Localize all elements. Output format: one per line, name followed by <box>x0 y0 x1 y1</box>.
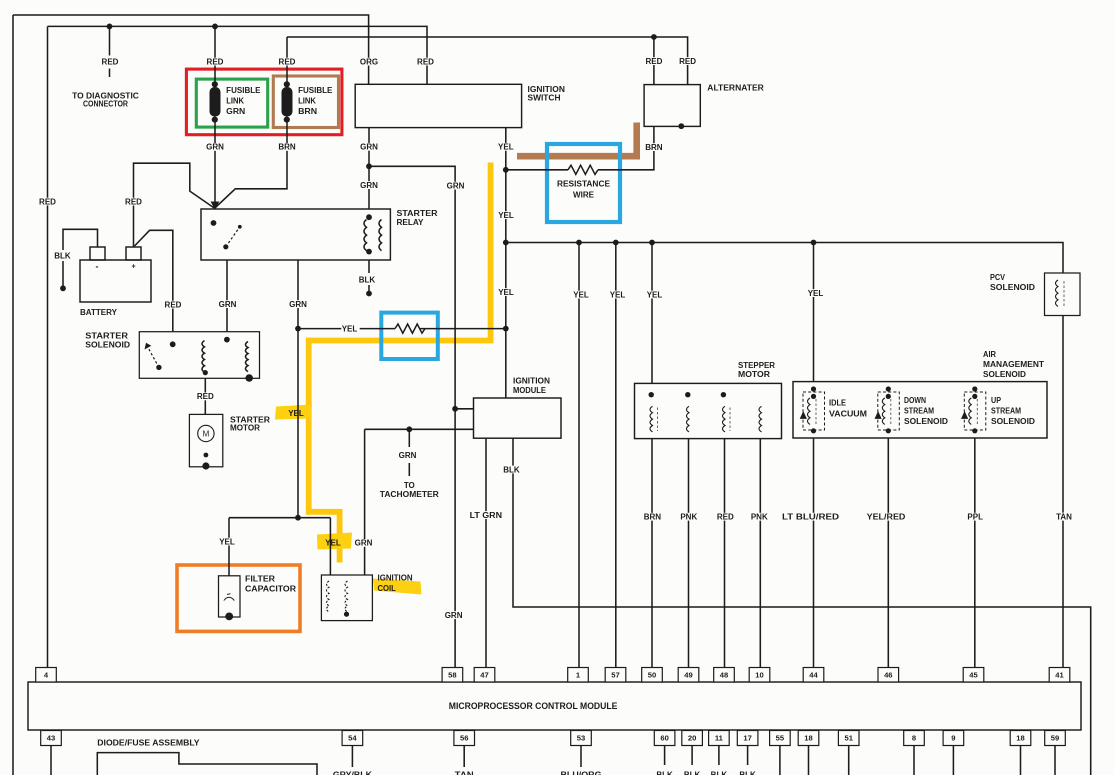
relay starter relay <box>201 209 438 260</box>
svg-text:PCV: PCV <box>990 273 1006 282</box>
resistor second resistance wire symbol <box>395 324 425 333</box>
label RED wire at 173,304 <box>165 301 183 309</box>
solenoid idle vacuum <box>800 386 868 433</box>
wire RED stepper to pin 48 <box>724 439 726 668</box>
svg-text:WIRE: WIRE <box>573 190 595 199</box>
svg-text:GRN: GRN <box>360 181 378 190</box>
svg-text:BLK: BLK <box>739 770 756 775</box>
svg-text:UP: UP <box>991 396 1002 405</box>
svg-text:COIL: COIL <box>378 584 396 593</box>
svg-text:GRN: GRN <box>219 300 237 309</box>
pin 48 top row <box>714 668 735 683</box>
wire below bottom pin 1 <box>351 746 353 768</box>
pin 18 bottom row 13 <box>1010 731 1031 746</box>
label GRN wire at 453,615 <box>445 611 463 619</box>
node at y37 alternater <box>651 34 657 40</box>
wire GRN branch to pin 58 <box>369 166 455 668</box>
wire GRN fusible link to starter relay <box>214 121 216 208</box>
wire YEL ignition switch down to ignition module <box>505 128 507 398</box>
svg-text:SOLENOID: SOLENOID <box>904 417 948 426</box>
battery <box>80 247 151 317</box>
label PPL wire at 975,516 <box>967 513 985 521</box>
wire YEL drop to pin 1 <box>578 243 580 669</box>
pin 49 top row <box>678 668 699 683</box>
node at y26 x215 <box>212 24 218 30</box>
wire RED left drop to pin 4 <box>47 26 49 668</box>
wire YEL drop to stepper motor <box>651 243 653 384</box>
wire below bottom pin 5 <box>691 746 693 766</box>
label YEL wire at 815,293 <box>807 289 825 297</box>
label RED wire at 215,61 <box>207 58 225 66</box>
label YEL wire at 617,294 <box>609 291 627 299</box>
svg-text:YEL: YEL <box>498 143 514 152</box>
node YEL resistor left <box>295 326 301 332</box>
svg-text:11: 11 <box>715 734 724 743</box>
svg-text:TO: TO <box>404 481 415 490</box>
highlight swatch YEL label near ignition coil <box>317 533 352 550</box>
svg-text:GRN: GRN <box>289 300 307 309</box>
svg-text:58: 58 <box>448 670 456 679</box>
pin 8 bottom row 11 <box>904 731 925 746</box>
pin 41 top row <box>1049 668 1070 683</box>
solenoid PCV solenoid <box>990 273 1080 316</box>
svg-text:-: - <box>96 262 99 272</box>
svg-text:MANAGEMENT: MANAGEMENT <box>983 360 1044 369</box>
svg-text:SWITCH: SWITCH <box>528 94 561 103</box>
wire RED stub to diagnostic connector <box>109 26 111 77</box>
svg-text:DOWN: DOWN <box>904 396 926 405</box>
solenoid up stream solenoid <box>961 386 1035 433</box>
svg-text:45: 45 <box>969 670 978 679</box>
label YEL wire at 506,292 <box>498 288 516 296</box>
label YEL wire at 581,294 <box>573 291 591 299</box>
svg-text:YEL: YEL <box>808 289 824 298</box>
motor starter motor <box>189 414 270 469</box>
assembly diode/fuse assembly <box>97 738 317 775</box>
pin 54 bottom row 1 <box>342 731 363 746</box>
label PNK wire at 759,516 <box>751 513 769 521</box>
wire GRN stub into ignition module <box>455 408 473 410</box>
solenoid starter solenoid <box>85 331 259 381</box>
svg-text:8: 8 <box>912 734 916 743</box>
svg-text:RED: RED <box>125 197 142 206</box>
pin 56 bottom row 2 <box>454 731 475 746</box>
wire below bottom pin 12 <box>952 746 954 775</box>
pin 44 top row <box>803 668 824 683</box>
svg-text:48: 48 <box>720 670 728 679</box>
wire RED/BRN top bus y37 <box>287 37 688 85</box>
svg-text:GRN: GRN <box>360 143 378 152</box>
pin 55 bottom row 8 <box>770 731 791 746</box>
svg-text:M: M <box>203 429 210 438</box>
svg-text:LT GRN: LT GRN <box>470 511 503 520</box>
label TAN wire at 1064,516 <box>1056 513 1074 521</box>
svg-text:BLU/ORG: BLU/ORG <box>561 770 602 775</box>
label LT GRN wire at 485,514 <box>470 511 504 519</box>
svg-text:YEL: YEL <box>573 290 589 299</box>
label RED wire at 687,61 <box>679 57 697 65</box>
svg-text:RED: RED <box>197 392 214 401</box>
generator alternater <box>644 84 764 129</box>
pin 9 bottom row 12 <box>943 731 964 746</box>
svg-text:LINK: LINK <box>298 97 316 106</box>
pin 1 top row <box>568 668 589 683</box>
wire GRN tachometer line to ignition module <box>365 428 474 430</box>
label BLK wire at 62,255 <box>54 252 72 260</box>
svg-text:RED: RED <box>279 57 296 66</box>
pin 17 bottom row 7 <box>737 731 758 746</box>
node YEL bus pin57 <box>613 240 619 246</box>
svg-text:BRN: BRN <box>645 143 663 152</box>
svg-text:60: 60 <box>660 734 668 743</box>
svg-text:RESISTANCE: RESISTANCE <box>557 180 611 189</box>
wire GRN starter relay to starter solenoid <box>226 260 228 332</box>
svg-text:47: 47 <box>480 670 488 679</box>
svg-text:YEL: YEL <box>219 537 235 546</box>
label PNK wire at 688,516 <box>681 513 699 521</box>
label RED wire at 287,61 <box>279 58 297 66</box>
label RED wire at 725,516 <box>717 513 735 521</box>
pin 47 top row <box>474 668 495 683</box>
node YEL resistance <box>503 167 509 173</box>
label BLK wire at 367,279 <box>359 276 377 284</box>
wire battery positive RED to starter solenoid <box>135 230 173 331</box>
label YEL/RED wire at 886,516 <box>867 513 908 521</box>
label GRN wire at 369,185 <box>361 181 379 189</box>
svg-text:YEL: YEL <box>647 290 663 299</box>
pin 59 bottom row 14 <box>1045 731 1066 746</box>
svg-text:BATTERY: BATTERY <box>80 308 118 317</box>
highlight yellow wire trace YEL circuit <box>309 163 491 563</box>
wire BLK starter relay stub <box>368 260 370 293</box>
svg-text:YEL: YEL <box>498 288 514 297</box>
transformer ignition coil <box>321 574 412 621</box>
label BLK wire at 511,469 <box>503 466 521 474</box>
svg-text:RED: RED <box>207 57 224 66</box>
module ignition module <box>474 376 562 438</box>
svg-text:18: 18 <box>804 734 812 743</box>
node BLK battery stub <box>60 285 66 291</box>
svg-text:44: 44 <box>809 670 818 679</box>
svg-text:SOLENOID: SOLENOID <box>85 341 130 350</box>
pin 11 bottom row 6 <box>709 731 730 746</box>
wire BRN stepper to pin 50 <box>651 439 653 668</box>
wire below bottom pin 13 <box>1020 746 1022 775</box>
label RED wire at 47,201 <box>39 198 57 206</box>
fuse fusible link GRN <box>210 81 262 122</box>
label GRN wire at 363,542 <box>355 539 373 547</box>
pin 20 bottom row 5 <box>682 731 703 746</box>
wire LT BLU/RED air mgmt to pin 44 <box>813 438 815 668</box>
svg-text:MOTOR: MOTOR <box>738 370 770 379</box>
svg-text:MOTOR: MOTOR <box>230 424 260 433</box>
highlight brown wire trace BRN circuit <box>517 123 637 157</box>
label YEL wire at 506,215 <box>498 211 516 219</box>
wire GRN ignition switch to starter relay <box>368 128 370 209</box>
wire below bottom pin 2 <box>463 746 465 768</box>
svg-text:MODULE: MODULE <box>513 386 547 395</box>
wire below bottom pin 14 <box>1054 746 1056 775</box>
svg-text:TAN: TAN <box>1056 513 1072 522</box>
svg-text:BLK: BLK <box>656 770 673 775</box>
wire PNK stepper to pin 10 <box>759 439 761 668</box>
svg-text:AIR: AIR <box>983 350 996 359</box>
wire RED drop to fusible link BRN <box>286 37 288 84</box>
svg-text:49: 49 <box>684 670 692 679</box>
label RED wire at 110,61 <box>102 58 120 66</box>
pin 51 bottom row 10 <box>838 731 859 746</box>
switch ignition switch <box>355 84 565 127</box>
node module stub <box>452 406 458 412</box>
svg-text:STREAM: STREAM <box>991 406 1021 415</box>
label ORG wire at 369,61 <box>361 58 379 66</box>
node GRN branch <box>366 163 372 169</box>
label BRN wire at 652,516 <box>644 513 662 521</box>
svg-text:BRN: BRN <box>644 513 662 522</box>
pin 4 top row <box>36 668 57 683</box>
svg-text:FUSIBLE: FUSIBLE <box>226 86 261 95</box>
svg-text:VACUUM: VACUUM <box>829 409 867 418</box>
svg-text:18: 18 <box>1016 734 1024 743</box>
wire YEL/RED air mgmt to pin 46 <box>887 438 889 668</box>
svg-text:57: 57 <box>611 670 619 679</box>
highlight swatch YEL label near starter motor <box>275 405 312 420</box>
svg-text:55: 55 <box>776 734 785 743</box>
label GRN wire at 455,185 <box>447 182 465 190</box>
svg-text:RELAY: RELAY <box>397 218 425 227</box>
svg-text:51: 51 <box>844 734 853 743</box>
node at y26 x109 <box>107 24 113 30</box>
wire YEL junction horizontal <box>229 517 330 519</box>
wire BLK ignition module route right <box>513 438 1091 775</box>
node YEL bus stepper <box>649 240 655 246</box>
label RED wire at 653,61 <box>646 57 664 65</box>
label YEL wire at 654,294 <box>646 291 664 299</box>
wire RED drop to alternater left <box>653 37 655 85</box>
wire below bottom pin 0 <box>50 746 52 775</box>
svg-text:17: 17 <box>743 734 751 743</box>
svg-text:STREAM: STREAM <box>904 406 934 415</box>
svg-text:ORG: ORG <box>360 57 378 66</box>
wire below bottom pin 3 <box>580 746 582 768</box>
svg-text:YEL/RED: YEL/RED <box>867 513 906 522</box>
wire GRN to ignition coil right <box>364 429 366 575</box>
svg-text:LINK: LINK <box>226 97 244 106</box>
svg-text:9: 9 <box>951 734 955 743</box>
wire below bottom pin 7 <box>747 746 749 766</box>
label RED wire at 425,61 <box>417 58 435 66</box>
wire YEL drop to pin 57 <box>615 243 617 669</box>
svg-text:RED: RED <box>165 300 182 309</box>
svg-text:TAN: TAN <box>455 770 474 775</box>
wire battery positive to starter relay <box>134 163 215 247</box>
svg-text:FILTER: FILTER <box>245 574 275 583</box>
svg-text:PNK: PNK <box>751 513 768 522</box>
svg-text:56: 56 <box>460 734 468 743</box>
svg-text:RED: RED <box>102 57 119 66</box>
node merge arrow at starter relay <box>211 202 220 210</box>
svg-text:STEPPER: STEPPER <box>738 361 775 370</box>
svg-text:LT BLU/RED: LT BLU/RED <box>782 513 839 522</box>
solenoid air management assembly <box>793 350 1047 438</box>
svg-text:IGNITION: IGNITION <box>378 574 413 583</box>
svg-text:PNK: PNK <box>680 513 697 522</box>
annotation box red around fusible links <box>186 69 342 135</box>
svg-text:BLK: BLK <box>503 465 520 474</box>
svg-text:DIODE/FUSE ASSEMBLY: DIODE/FUSE ASSEMBLY <box>97 738 200 747</box>
node tachometer tap <box>406 426 412 432</box>
svg-text:YEL: YEL <box>288 409 304 418</box>
wire RED starter solenoid to starter motor <box>204 378 206 414</box>
svg-text:53: 53 <box>577 734 585 743</box>
wire BRN fusible link to starter relay <box>215 121 287 208</box>
wire below bottom pin 10 <box>848 746 850 775</box>
annotation box orange around filter capacitor <box>177 565 300 631</box>
wire resistance wire BRN to alternater <box>506 126 654 169</box>
svg-text:10: 10 <box>755 670 763 679</box>
wire battery negative BLK stub <box>63 229 98 288</box>
pin 57 top row <box>605 668 626 683</box>
wire TAN PCV solenoid to pin 41 <box>1062 316 1064 669</box>
annotation box green around fusible link GRN <box>196 79 267 127</box>
svg-text:FUSIBLE: FUSIBLE <box>298 86 333 95</box>
svg-text:BLK: BLK <box>54 251 71 260</box>
label YEL wire at 227,541 <box>219 538 237 546</box>
svg-text:STARTER: STARTER <box>397 209 438 218</box>
pin 53 bottom row 3 <box>571 731 592 746</box>
wire YEL to ignition coil left <box>329 518 331 575</box>
wire YEL to filter capacitor <box>228 518 230 576</box>
svg-text:YEL: YEL <box>342 325 358 334</box>
label GRN wire at 298,304 <box>290 300 308 308</box>
wire GRN starter relay middle down <box>297 260 299 329</box>
wire below bottom pin 11 <box>913 746 915 775</box>
svg-text:YEL: YEL <box>498 211 514 220</box>
connector TO DIAGNOSTIC CONNECTOR <box>72 92 141 100</box>
svg-text:54: 54 <box>348 734 357 743</box>
pin 46 top row <box>878 668 899 683</box>
wire left page border <box>12 15 14 775</box>
svg-text:43: 43 <box>47 734 55 743</box>
label LT BLU/RED wire at 810,516 <box>782 513 841 521</box>
pin 43 bottom row 0 <box>41 731 62 746</box>
svg-text:46: 46 <box>884 670 892 679</box>
svg-text:GRN: GRN <box>445 611 463 620</box>
svg-text:RED: RED <box>417 57 434 66</box>
annotation box blue around resistance wire <box>547 144 620 222</box>
label YEL wire at 505,146 <box>498 143 516 151</box>
pin 58 top row <box>442 668 463 683</box>
label GRN wire at 227,304 <box>219 300 237 308</box>
wire YEL drop to air management solenoid <box>813 243 815 382</box>
svg-text:MICROPROCESSOR CONTROL MODULE: MICROPROCESSOR CONTROL MODULE <box>449 701 618 711</box>
svg-text:20: 20 <box>688 734 696 743</box>
svg-text:GRN: GRN <box>399 451 417 460</box>
capacitor filter capacitor <box>219 574 297 620</box>
node YEL bus left <box>503 240 509 246</box>
node YEL bus pin1 <box>576 240 582 246</box>
node YEL junction lower <box>295 515 301 521</box>
svg-text:YEL: YEL <box>610 290 626 299</box>
svg-text:GRN: GRN <box>226 107 245 116</box>
svg-text:BLK: BLK <box>711 770 728 775</box>
wire RED top bus y26 <box>48 26 428 84</box>
annotation box brown around fusible link BRN <box>273 76 338 128</box>
wire below bottom pin 9 <box>808 746 810 775</box>
svg-text:50: 50 <box>648 670 656 679</box>
annotation box blue around second resistance wire <box>381 313 438 359</box>
label BRN wire at 287,146 <box>279 143 297 151</box>
wire YEL with resistance wire to module drop <box>298 328 506 330</box>
wire RED drop to fusible link GRN <box>214 26 216 84</box>
wire YEL down from node to junction <box>297 329 299 518</box>
motor stepper motor <box>635 361 782 439</box>
wire PPL air mgmt to pin 45 <box>974 438 976 668</box>
svg-text:TACHOMETER: TACHOMETER <box>380 490 439 499</box>
wire LT GRN ignition module to pin 47 <box>485 438 487 668</box>
svg-text:GRN: GRN <box>447 181 465 190</box>
svg-text:GRN: GRN <box>206 143 224 152</box>
label BRN wire at 653,147 <box>646 143 664 151</box>
label to tachometer <box>399 451 417 459</box>
svg-text:41: 41 <box>1055 670 1064 679</box>
label resistance wire <box>557 180 612 188</box>
wire PNK stepper to pin 49 <box>688 439 690 668</box>
pin 10 top row <box>749 668 770 683</box>
svg-text:RED: RED <box>679 57 696 66</box>
svg-text:BLK: BLK <box>359 275 376 284</box>
wire below bottom pin 4 <box>664 746 666 766</box>
label TAN wire at 1064,516 <box>1056 513 1074 521</box>
wire ORG top feed <box>13 15 369 84</box>
label GRN wire at 215,146 <box>207 143 225 151</box>
resistor resistance wire symbol <box>568 165 598 174</box>
label YEL wire at 349,328 <box>341 325 359 333</box>
module microprocessor control module <box>28 682 1081 730</box>
label GRN wire at 369,146 <box>361 143 379 151</box>
svg-text:ALTERNATER: ALTERNATER <box>707 84 764 93</box>
label RED wire at 205,396 <box>197 393 215 401</box>
pin 18 bottom row 9 <box>798 731 819 746</box>
svg-text:+: + <box>131 264 135 271</box>
svg-text:RED: RED <box>39 197 56 206</box>
svg-text:GRN: GRN <box>355 539 373 548</box>
svg-text:59: 59 <box>1051 734 1059 743</box>
svg-text:STARTER: STARTER <box>85 331 128 340</box>
wire YEL main bus <box>506 243 1063 274</box>
svg-text:YEL: YEL <box>325 539 341 548</box>
node BLK relay stub <box>366 291 372 297</box>
svg-text:GRY/BLK: GRY/BLK <box>333 770 372 775</box>
pin 50 top row <box>642 668 663 683</box>
svg-text:CONNECTOR: CONNECTOR <box>83 100 128 109</box>
fuse fusible link BRN <box>282 81 334 122</box>
svg-text:CAPACITOR: CAPACITOR <box>245 584 296 593</box>
svg-text:SOLENOID: SOLENOID <box>991 417 1035 426</box>
svg-text:BLK: BLK <box>684 770 701 775</box>
pin 60 bottom row 4 <box>654 731 675 746</box>
pin 45 top row <box>963 668 984 683</box>
svg-text:IDLE: IDLE <box>829 398 847 407</box>
wire below bottom pin 8 <box>779 746 781 775</box>
node YEL resistor right <box>503 326 509 332</box>
label RED wire at 133,201 <box>125 198 143 206</box>
svg-text:BRN: BRN <box>278 143 296 152</box>
highlight swatch IGNITION COIL label <box>373 579 422 595</box>
svg-text:RED: RED <box>645 57 662 66</box>
wire GRN to tachometer stub <box>408 429 410 476</box>
wire below bottom pin 6 <box>718 746 720 766</box>
